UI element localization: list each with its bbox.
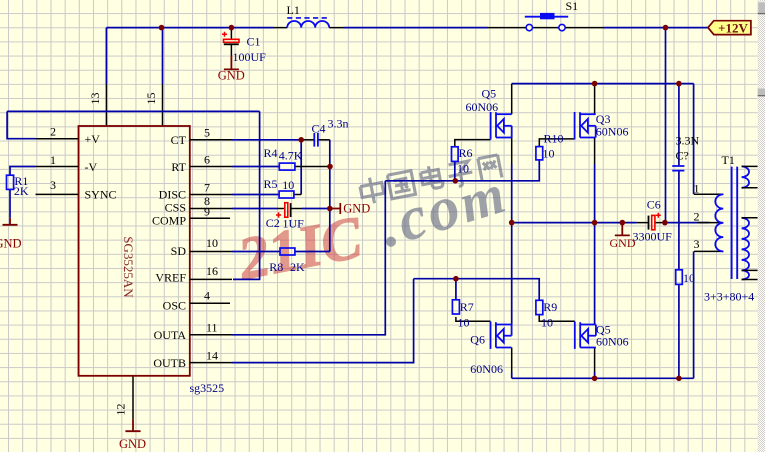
wire C2 to GND node bbox=[302, 208, 330, 210]
junction snubber/bottom rail bbox=[676, 376, 682, 382]
svg-text:2: 2 bbox=[50, 125, 56, 139]
wire R1 bottom to ground bbox=[9, 189, 11, 217]
ground (pin 12) bbox=[119, 419, 146, 451]
svg-text:R7: R7 bbox=[460, 300, 474, 314]
wire top rail between L1 and S1 bbox=[343, 27, 488, 29]
pin 7 (DISC) lead bbox=[190, 194, 232, 196]
transformer T1 bbox=[694, 166, 758, 279]
pin 1 (-V) lead bbox=[36, 166, 79, 168]
wire bottom rail up to T1 tap 3 bbox=[693, 251, 695, 378]
svg-text:+V: +V bbox=[85, 132, 101, 146]
junction Q3 drain/rail bbox=[592, 81, 598, 87]
junction C6+/12V bbox=[662, 220, 668, 226]
svg-text:RT: RT bbox=[171, 160, 186, 174]
resistor R5 bbox=[279, 191, 294, 198]
wire OUTB rail to R9 top bbox=[414, 279, 540, 301]
svg-text:12: 12 bbox=[114, 404, 128, 416]
wire Q6 source lead bbox=[511, 348, 513, 373]
svg-text:9: 9 bbox=[204, 204, 210, 218]
svg-text:CT: CT bbox=[171, 133, 187, 147]
svg-text:2K: 2K bbox=[290, 260, 305, 274]
wire C? bottom to damping resistor bbox=[678, 171, 680, 270]
wire drain rail down to T1 tap 1 bbox=[693, 84, 695, 195]
ground (power mid rail) bbox=[610, 223, 636, 250]
wire VREF-to-+V rail bbox=[7, 110, 260, 112]
svg-text:Q5: Q5 bbox=[482, 87, 497, 101]
svg-text:R4: R4 bbox=[264, 146, 278, 160]
resistor R1 bbox=[7, 175, 14, 189]
svg-text:GND: GND bbox=[343, 202, 370, 216]
wire C2 right lead bbox=[291, 208, 302, 210]
ground (CSS net) bbox=[330, 202, 370, 216]
wire R6 bottom to OUTA rail bbox=[454, 161, 456, 180]
junction Q5 lower source/bottom rail bbox=[592, 376, 598, 382]
svg-text:4.7K: 4.7K bbox=[279, 148, 303, 162]
pin 4 (OSC) lead bbox=[190, 302, 230, 304]
svg-text:2: 2 bbox=[694, 209, 700, 223]
transistor Q3 bbox=[575, 112, 596, 140]
svg-text:3: 3 bbox=[694, 237, 700, 251]
svg-text:5: 5 bbox=[204, 126, 210, 140]
wire OUTA run and riser bbox=[232, 181, 385, 335]
wire mid rail (sources/GND side) bbox=[512, 222, 637, 224]
svg-text:+12V: +12V bbox=[718, 20, 748, 35]
wire pin 12 lead to ground bbox=[132, 376, 134, 420]
junction R7/OUTB rail bbox=[453, 276, 459, 282]
junction CT node bbox=[298, 137, 304, 143]
wire +12V vertical feed bbox=[665, 28, 667, 223]
resistor R10 bbox=[536, 147, 543, 160]
svg-text:13: 13 bbox=[88, 93, 102, 105]
svg-text:S1: S1 bbox=[566, 0, 579, 13]
wire pin 13 riser upper part bbox=[105, 28, 107, 84]
svg-text:C4: C4 bbox=[312, 121, 326, 135]
svg-text:T1: T1 bbox=[722, 153, 735, 167]
svg-text:Q6: Q6 bbox=[470, 333, 485, 347]
wire damping resistor to bottom rail bbox=[678, 284, 680, 378]
svg-text:6: 6 bbox=[204, 153, 210, 167]
pin 16 (VREF) lead bbox=[190, 278, 232, 280]
wire pin 13 riser lower part bbox=[105, 84, 107, 126]
svg-text:10: 10 bbox=[683, 271, 695, 285]
svg-text:3300UF: 3300UF bbox=[633, 230, 673, 244]
svg-text:OUTB: OUTB bbox=[153, 356, 186, 370]
wire drain rail (upper) bbox=[512, 83, 694, 85]
scrollbar track bbox=[758, 0, 765, 452]
wire R6 top to Q5 gate bbox=[455, 140, 491, 147]
wire pin 15 riser lower part bbox=[162, 84, 164, 126]
svg-text:3+3+80+4: 3+3+80+4 bbox=[704, 289, 754, 303]
wire vertical C4/R4/C2/R8 bus bbox=[329, 140, 331, 252]
svg-text:4: 4 bbox=[204, 289, 210, 303]
svg-text:10: 10 bbox=[282, 178, 294, 192]
wire pin 15 riser upper part bbox=[162, 28, 164, 84]
pin 9 (COMP) lead bbox=[190, 217, 230, 219]
junction C1/top rail bbox=[229, 25, 235, 31]
resistor R9 bbox=[536, 300, 543, 314]
svg-text:R9: R9 bbox=[543, 300, 557, 314]
pin 2 (+V) lead bbox=[36, 138, 79, 140]
wire R4 right lead bbox=[295, 166, 330, 168]
svg-text:SG3525AN: SG3525AN bbox=[121, 236, 136, 298]
svg-text:VREF: VREF bbox=[155, 271, 186, 285]
wire C1 top lead bbox=[230, 28, 232, 40]
svg-text:60N06: 60N06 bbox=[596, 125, 629, 139]
wire Q6 drain riser bbox=[511, 223, 513, 325]
junction R6/OUTA rail bbox=[453, 178, 459, 184]
wire R7 top lead bbox=[455, 279, 457, 300]
svg-text:R10: R10 bbox=[544, 132, 564, 146]
pin 14 (OUTB) lead bbox=[190, 362, 232, 364]
svg-text:16: 16 bbox=[206, 264, 218, 278]
wire pin 5 (CT) to node bbox=[232, 139, 301, 141]
wire OUTA rail to R10 bottom bbox=[385, 160, 539, 181]
scrollbar thumb bbox=[758, 88, 765, 96]
svg-text:10: 10 bbox=[458, 316, 470, 330]
wire C4 right lead bbox=[318, 139, 330, 141]
svg-text:10: 10 bbox=[541, 316, 553, 330]
svg-text:sg3525: sg3525 bbox=[190, 381, 225, 395]
capacitor C6 3300UF bbox=[637, 213, 665, 230]
junction Q3 source/mid rail bbox=[592, 220, 598, 226]
watermark 21IC.com 中国电子网 bbox=[232, 155, 515, 293]
wire R8 right lead bbox=[295, 251, 330, 253]
svg-text:15: 15 bbox=[144, 93, 158, 105]
power port +12V bbox=[708, 20, 751, 35]
pin 5 (CT) lead bbox=[190, 139, 232, 141]
ground (C1) bbox=[218, 56, 245, 83]
svg-text:10: 10 bbox=[206, 236, 218, 250]
wire mid rail C6 to T1 tap 2 bbox=[665, 222, 710, 224]
transistor Q5 (lower right) bbox=[575, 322, 596, 349]
svg-text:60N06: 60N06 bbox=[596, 334, 629, 348]
svg-text:1: 1 bbox=[50, 153, 56, 167]
svg-text:SD: SD bbox=[171, 244, 187, 258]
svg-text:GND: GND bbox=[119, 437, 146, 451]
wire R10 top to Q3 gate bbox=[539, 139, 574, 147]
ground (R1) bbox=[0, 218, 22, 251]
wire pin 6 (RT) to R4 bbox=[232, 166, 279, 168]
svg-text:COMP: COMP bbox=[152, 214, 186, 228]
svg-text:-V: -V bbox=[85, 160, 98, 174]
svg-text:C6: C6 bbox=[647, 197, 661, 211]
wire Q5 source to mid rail bbox=[511, 138, 513, 165]
svg-text:60N06: 60N06 bbox=[470, 362, 503, 376]
svg-text:R5: R5 bbox=[264, 177, 278, 191]
pin 10 (SD) lead bbox=[190, 251, 232, 253]
transistor Q5 (upper left) bbox=[491, 112, 512, 140]
svg-text:3.3N: 3.3N bbox=[676, 133, 700, 147]
wire top rail left segment (pin13 riser to L1) bbox=[106, 27, 274, 29]
svg-text:R6: R6 bbox=[459, 146, 473, 160]
svg-text:L1: L1 bbox=[287, 3, 300, 17]
junction pin15/top rail bbox=[159, 25, 165, 31]
wire C4 left lead bbox=[301, 139, 314, 141]
wire down to pin 2 (+V) bbox=[7, 111, 35, 138]
junction GND tap/mid rail bbox=[620, 220, 626, 226]
capacitor C1 100UF bbox=[222, 32, 239, 56]
svg-text:CSS: CSS bbox=[165, 201, 186, 215]
junction Q5 source/mid rail bbox=[509, 220, 515, 226]
wire R5 right lead bbox=[294, 194, 301, 196]
svg-text:OSC: OSC bbox=[163, 299, 186, 313]
inductor L1 bbox=[274, 18, 343, 28]
svg-text:11: 11 bbox=[206, 321, 218, 335]
wire OUTB run and riser bbox=[232, 279, 414, 363]
wire Q5 (lower) drain riser bbox=[594, 223, 596, 325]
wire R7 bottom to Q6 gate bbox=[456, 317, 491, 321]
wire Q3 source to mid rail bbox=[594, 138, 596, 165]
resistor R7 bbox=[452, 300, 459, 314]
svg-text:OUTA: OUTA bbox=[154, 328, 187, 342]
resistor R6 bbox=[452, 147, 459, 162]
capacitor C4 3.3n bbox=[314, 133, 318, 147]
svg-text:1: 1 bbox=[694, 182, 700, 196]
pin 6 (RT) lead bbox=[190, 166, 232, 168]
capacitor C? 3.3N bbox=[672, 166, 684, 171]
svg-text:3.3n: 3.3n bbox=[328, 117, 349, 131]
svg-text:SYNC: SYNC bbox=[85, 188, 117, 202]
wire pin 10 (SD) to R8 bbox=[232, 251, 280, 253]
pin 8 (CSS) lead bbox=[190, 208, 232, 210]
resistor R8 bbox=[280, 248, 295, 255]
svg-text:GND: GND bbox=[610, 236, 636, 250]
wire Q5 drain lead bbox=[511, 84, 513, 115]
resistor R4 bbox=[279, 163, 295, 170]
transistor Q6 bbox=[491, 322, 512, 349]
scrollbar button top bbox=[758, 2, 765, 14]
svg-text:R8: R8 bbox=[269, 260, 283, 274]
junction R4/bus bbox=[327, 164, 333, 170]
pin 11 (OUTA) lead bbox=[190, 334, 232, 336]
wire pin 1 (-V) to R1 top bbox=[10, 167, 36, 176]
svg-text:GND: GND bbox=[218, 69, 245, 83]
wire pin 7 (DISC) to R5 bbox=[232, 194, 279, 196]
svg-text:1UF: 1UF bbox=[283, 217, 305, 231]
svg-text:60N06: 60N06 bbox=[466, 100, 499, 114]
wire C? top branch bbox=[678, 84, 680, 166]
junction C? branch/rail bbox=[676, 81, 682, 87]
svg-text:C?: C? bbox=[676, 149, 689, 163]
resistor 10 (snubber) bbox=[676, 270, 683, 285]
svg-text:10: 10 bbox=[457, 162, 469, 176]
svg-text:2K: 2K bbox=[14, 184, 29, 198]
capacitor C2 1UF bbox=[276, 203, 291, 218]
wire Q3 drain lead bbox=[594, 84, 596, 115]
wire node CT down to R5 right bbox=[300, 140, 302, 195]
wire pin 8 (CSS) to C2 bbox=[232, 208, 278, 210]
junction +12V feed bbox=[663, 25, 669, 31]
svg-text:7: 7 bbox=[204, 181, 210, 195]
svg-text:100UF: 100UF bbox=[233, 50, 267, 64]
wire top rail from S1 to +12V port bbox=[603, 27, 708, 29]
svg-text:GND: GND bbox=[0, 237, 22, 251]
wire bottom rail bbox=[512, 377, 694, 379]
svg-text:C2: C2 bbox=[266, 216, 280, 230]
wire vertical to pin 16 (VREF) bbox=[233, 111, 260, 279]
junction C2/GND bus bbox=[327, 206, 333, 212]
switch S1 bbox=[488, 13, 603, 31]
op-amp U1 SG3525AN body bbox=[79, 126, 190, 376]
wire R9 bottom to Q5 gate bbox=[539, 315, 575, 322]
svg-text:C1: C1 bbox=[247, 34, 261, 48]
svg-text:14: 14 bbox=[206, 349, 218, 363]
wire C2 left lead bbox=[278, 208, 285, 210]
svg-text:10: 10 bbox=[543, 146, 555, 160]
svg-text:3: 3 bbox=[50, 178, 56, 192]
pin 3 (SYNC) lead bbox=[36, 193, 79, 195]
wire Q5 (lower) source lead bbox=[594, 348, 596, 373]
